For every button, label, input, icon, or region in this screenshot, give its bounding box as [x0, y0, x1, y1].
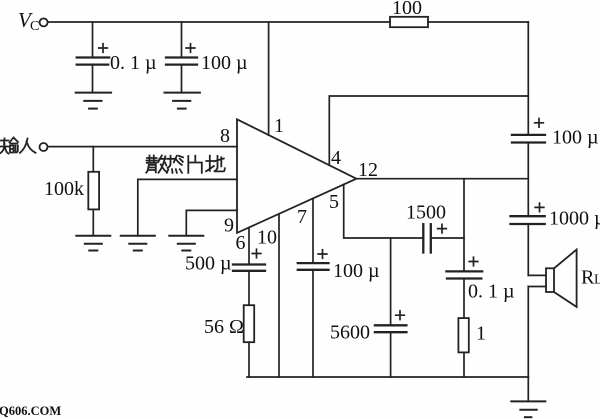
wire 5600 branch [390, 238, 392, 325]
wire right rail lower [527, 287, 529, 378]
svg-text:1: 1 [476, 323, 486, 345]
svg-text:8: 8 [220, 125, 230, 147]
wire heat-sink to op-amp left edge [138, 179, 237, 235]
svg-text:500 µ: 500 µ [185, 253, 232, 275]
wire mid rail from output [463, 179, 465, 272]
resistor 100k [44, 147, 99, 236]
svg-text:100 µ: 100 µ [552, 127, 599, 149]
ground [76, 236, 110, 251]
capacitor 0.1u [446, 257, 514, 318]
svg-text:100 µ: 100 µ [201, 52, 248, 74]
svg-text:100: 100 [392, 0, 422, 19]
svg-text:1000 µ: 1000 µ [549, 208, 600, 230]
capacitor 5600 [330, 311, 406, 377]
svg-text:L: L [594, 273, 600, 288]
ground main [511, 377, 545, 417]
svg-text:4: 4 [331, 147, 341, 169]
wire ground bus [247, 376, 528, 378]
resistor 100 [390, 0, 428, 27]
speaker RL [528, 250, 600, 307]
capacitor 1000u [511, 203, 600, 275]
svg-text:5600: 5600 [330, 322, 370, 344]
op-amp U1 triangle [237, 119, 356, 233]
resistor 56 ohm [204, 305, 254, 377]
svg-text:100k: 100k [44, 178, 84, 200]
wire top rail resistor to right corner [428, 21, 528, 23]
svg-text:0. 1 µ: 0. 1 µ [468, 281, 515, 303]
svg-text:1: 1 [274, 115, 284, 137]
svg-text:56 Ω: 56 Ω [204, 316, 244, 338]
wire pin 4 rise and feedback rail [329, 96, 528, 165]
svg-text:R: R [581, 267, 595, 289]
svg-text:1500: 1500 [406, 202, 446, 224]
wire pin 9 to ground [186, 210, 237, 235]
capacitor C2 100u [166, 22, 248, 92]
svg-text:0. 1 µ: 0. 1 µ [110, 52, 157, 74]
capacitor 100u pin7 [298, 250, 380, 377]
wire pin 6 [248, 228, 250, 265]
wire pin 10 [278, 214, 280, 377]
ground [169, 236, 203, 251]
svg-text:Q606.COM: Q606.COM [0, 404, 61, 418]
capacitor 1500 [406, 202, 464, 253]
capacitor 100u right [512, 119, 599, 217]
wire pin 1 drop from top rail [268, 22, 270, 135]
wire input to pin 8 [48, 146, 237, 148]
wire pin 7 [312, 198, 314, 263]
ground [121, 236, 155, 251]
resistor 1 [458, 318, 486, 377]
svg-text:12: 12 [358, 159, 378, 181]
wire output pin 12 [356, 178, 528, 180]
wire right rail upper [527, 22, 529, 135]
svg-text:7: 7 [297, 206, 307, 228]
heat-sink ground label (Chinese: san-re-pian-di) [146, 156, 225, 173]
svg-text:C: C [30, 19, 39, 34]
svg-text:100 µ: 100 µ [333, 260, 380, 282]
terminal Vc [18, 8, 48, 34]
ground [165, 93, 200, 109]
capacitor 500u [185, 249, 265, 305]
svg-text:6: 6 [236, 232, 246, 254]
svg-text:9: 9 [224, 215, 234, 237]
svg-text:5: 5 [329, 191, 339, 213]
ground [76, 93, 111, 109]
wire top rail Vc to resistor [48, 21, 390, 23]
svg-text:10: 10 [257, 227, 277, 249]
terminal input (Chinese: shu-ru) [1, 138, 48, 154]
capacitor C1 0.1u [77, 22, 157, 92]
wire pin 5 down and across [344, 185, 424, 239]
